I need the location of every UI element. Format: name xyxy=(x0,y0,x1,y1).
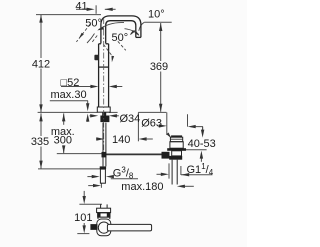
svg-text:Ø34: Ø34 xyxy=(120,113,141,125)
svg-text:10°: 10° xyxy=(148,9,165,21)
svg-text:140: 140 xyxy=(112,134,130,146)
svg-text:□52: □52 xyxy=(61,77,80,89)
svg-text:101: 101 xyxy=(74,212,92,224)
svg-text:369: 369 xyxy=(150,61,168,73)
svg-text:50°: 50° xyxy=(112,32,129,44)
svg-text:max.180: max.180 xyxy=(121,181,163,193)
svg-text:41: 41 xyxy=(75,0,87,12)
svg-text:335: 335 xyxy=(31,136,49,148)
svg-text:412: 412 xyxy=(32,59,50,71)
svg-text:300: 300 xyxy=(54,135,72,147)
svg-text:max.30: max.30 xyxy=(51,89,87,101)
svg-text:40-53: 40-53 xyxy=(188,138,216,150)
svg-text:50°: 50° xyxy=(85,17,102,29)
svg-text:Ø63: Ø63 xyxy=(141,118,162,130)
